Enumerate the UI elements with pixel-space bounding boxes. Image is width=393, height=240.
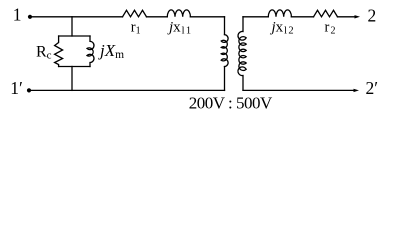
wire r1 to jxl1 (147, 16, 168, 18)
resistor r2 (314, 10, 338, 16)
wire shunt bottom bar (59, 66, 90, 68)
svg-text:jxl2: jxl2 (270, 19, 295, 36)
wire jxl1 to primary corner (190, 16, 224, 18)
terminal 1' dot (27, 88, 31, 92)
wire bottom right rail (243, 89, 355, 91)
svg-text:Rc: Rc (36, 43, 52, 61)
wire terminal 1 to resistor r1 (30, 16, 123, 18)
wire primary bottom drop (224, 67, 226, 91)
wire r2 to terminal 2 (338, 16, 357, 18)
wire bottom left rail (29, 89, 225, 91)
resistor r1 (123, 10, 147, 16)
transformer secondary winding (238, 17, 246, 91)
svg-text:jxl1: jxl1 (167, 19, 192, 36)
terminal 1 dot (28, 15, 32, 19)
inductor jxl1 (167, 10, 190, 17)
wire secondary top to jxl2 (243, 16, 268, 18)
svg-text:2′: 2′ (366, 78, 379, 98)
wire jxl2 to r2 (291, 16, 313, 18)
wire shunt stub top (71, 17, 73, 36)
terminal 2 arrowhead (355, 15, 361, 18)
svg-text:r1: r1 (131, 19, 141, 36)
svg-text:1′: 1′ (10, 78, 23, 98)
inductor jXm (87, 36, 94, 67)
wire shunt stub bottom (71, 67, 73, 91)
svg-text:200V : 500V: 200V : 500V (189, 94, 273, 113)
resistor Rc (55, 36, 63, 67)
svg-text:1: 1 (13, 5, 22, 25)
wire primary top drop (224, 17, 226, 35)
transformer primary winding (221, 35, 228, 67)
terminal 2' arrowhead (354, 89, 360, 92)
inductor jxl2 (268, 10, 291, 17)
svg-text:r2: r2 (325, 19, 336, 36)
svg-text:jXm: jXm (98, 41, 124, 61)
wire shunt top bar (59, 35, 90, 37)
svg-text:2: 2 (368, 5, 377, 25)
